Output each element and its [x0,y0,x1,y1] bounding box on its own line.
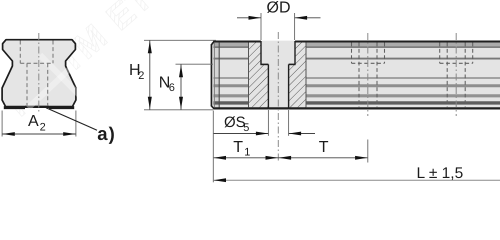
dimension T arrows [279,156,292,160]
hole 1 centerline [277,32,279,163]
dimension H2 extension lines [144,40,216,110]
hole 2 hidden counterbore [352,43,385,64]
label OS5 [224,114,249,134]
rail top edge [213,41,500,43]
svg-text:T: T [319,139,329,156]
watermark stripes over profile [28,52,92,108]
rail shading bands [214,43,500,103]
counterbore walls hole 1 [261,41,295,64]
dimension N6 extension line [176,63,214,65]
dimension N6 arrows [179,65,183,78]
hole 3 hidden counterbore [440,43,473,64]
hole 2 centerline [367,33,369,116]
hidden through hole in cross-section [27,63,48,106]
dimension N6 line [180,64,182,110]
watermark [0,0,160,124]
svg-text:A: A [28,113,39,130]
dimension A2 arrows [2,132,15,136]
rail cross-section profile [2,40,76,107]
dimension OS5 arrows [256,132,269,136]
svg-text:2: 2 [138,70,144,82]
dimension OS5 line [214,133,316,135]
svg-text:ØD: ØD [267,0,291,17]
dimension L line [213,179,500,181]
hole 2 hidden through hole [359,43,377,108]
svg-text:2: 2 [40,122,46,134]
svg-text:T: T [233,139,243,156]
rail end chamfer line [218,43,220,108]
rail bottom edge [213,107,500,109]
dimension OS5 extension lines [268,110,288,136]
rail left end edge [211,41,214,109]
rail side view body [211,41,500,110]
dimension L arrow [214,178,227,182]
cross-section centerline [38,33,40,113]
hidden counterbore in cross-section [20,41,53,64]
label A2 [28,113,46,134]
svg-text:a): a) [97,123,116,144]
hole 3 hidden through hole [447,43,465,108]
label T1 [233,139,250,159]
dimension T1 arrows [214,156,227,160]
hole 3 centerline [455,33,457,116]
through hole walls hole 1 [268,64,288,107]
dimension OD line [237,17,321,19]
profile bottom thick edge [4,106,25,109]
left extension line for T1 and L [212,111,214,183]
counterbore shoulder hole 1 [260,63,295,65]
svg-text:1: 1 [244,147,250,159]
svg-text:6: 6 [169,82,175,94]
rail end face strip [212,42,220,107]
section boundary lines [249,43,307,108]
dimension OD extension lines [261,13,295,40]
dimension H2 arrows [148,41,152,54]
leader line to a) [46,108,97,130]
label H2 [129,62,144,82]
dimension OD arrows [249,16,262,20]
svg-text:L ± 1,5: L ± 1,5 [417,165,464,182]
dimension A2 extension lines [2,111,76,137]
dimension T1 T shared line [213,157,367,159]
svg-text:5: 5 [243,122,249,134]
hole 2 center extension for T [367,140,369,163]
dimension H2 line [149,40,151,110]
label N6 [159,75,175,95]
dimension A2 line [2,133,76,135]
broken-out section hatching [249,42,307,107]
